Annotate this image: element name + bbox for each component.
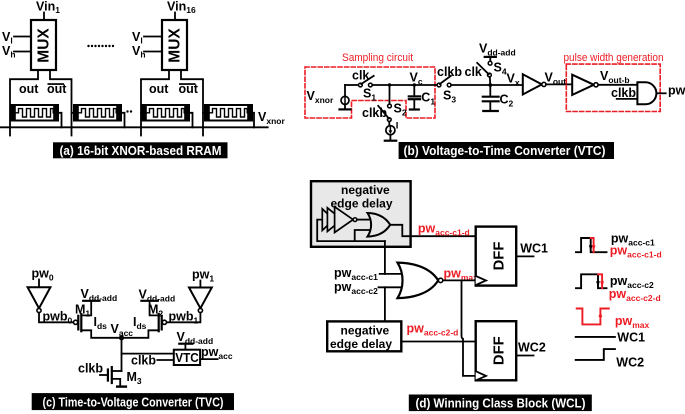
wire clkb (AND) [617,98,638,100]
wire Vh (U1) [14,51,31,53]
supply bar (VTC) [179,343,192,345]
node Vl (U16) [132,30,143,46]
svg-text:WC2: WC2 [616,356,644,370]
label pwacc-c1-d [418,222,470,238]
or gate delay1 [368,213,391,237]
svg-text:clkb: clkb [78,362,103,376]
svg-text:DFF: DFF [491,336,507,365]
svg-text:pw: pw [668,84,685,98]
svg-text:clk: clk [465,65,482,79]
label M2 [148,303,163,319]
svg-text:out: out [149,82,169,96]
transistor M2 (PMOS) [122,301,167,338]
sampling circuit dashed box [305,67,435,118]
wire Vin16 [174,13,176,21]
supply Vdd-add (S4) [479,42,516,58]
node out (U1) [19,82,39,96]
legend line WC1 [576,336,615,338]
wire outbar (U16) [181,70,203,136]
label pwacc-c2 [334,280,378,296]
wire delay1 input loop [317,220,385,242]
svg-text:WC1: WC1 [617,331,645,345]
node Vin16 [167,0,196,15]
label clkb (S3) [437,65,462,79]
legend label pwmax [615,314,650,330]
label clkb (S2) [362,106,387,120]
transistor M1 (PMOS) [74,301,122,338]
wire Vout [546,83,572,85]
svg-text:MUX: MUX [167,28,184,63]
svg-text:clkb: clkb [362,106,387,120]
legend label pwacc-c2-d [609,287,661,303]
supply bar (M1) [83,300,99,302]
svg-text:negative: negative [341,183,390,197]
svg-text:(a) 16-bit XNOR-based RRAM: (a) 16-bit XNOR-based RRAM [60,143,222,158]
wire main b3 [451,84,523,86]
node junction C2 [488,83,492,87]
label negative edge delay 1 [331,183,393,211]
wire pw0 [38,280,40,288]
wire S4 top [489,57,491,61]
wire pwacc-c2 [379,286,404,288]
wire inv chain to or [357,219,369,221]
switch S2 [378,104,391,121]
node Vin1 [36,0,60,15]
label clkb (M3) [78,362,103,376]
resistor RRAM cell 1 [11,105,58,121]
nor gate pwmax [398,263,443,299]
wire pwacc-c1-d [390,225,476,236]
inverter pw0 [28,287,51,312]
label clk (S4) [465,65,482,79]
wire Vl (U16) [144,36,162,38]
wire Vacc to VTC [122,353,174,355]
svg-text:I: I [396,121,399,132]
pulse width generation dashed box [566,64,660,111]
node Vh (U1) [2,44,16,60]
source Vxnor [340,85,351,109]
label S3 [443,89,456,105]
label I [396,121,399,132]
inverter pw1 [189,288,212,313]
svg-text:clkb: clkb [131,354,156,368]
label M3 [127,370,142,386]
node Vxnor [258,110,285,126]
block VTC [174,350,200,365]
capacitor C1 [409,85,420,110]
label C2 [500,93,514,109]
negative edge delay box 1 (grey) [311,181,411,247]
dff WC2 [476,321,517,380]
wire pw1 [199,281,201,288]
node pwb0 [43,310,73,326]
wire Vxnor bus [0,126,268,128]
wire Voutb [598,84,637,86]
legend label pwacc-c2 [610,274,654,290]
wire Vdd to VTC [184,344,186,350]
wire out (U1) [10,70,38,136]
svg-text:clkb: clkb [437,65,462,79]
resistor RRAM cell 2 [74,105,121,121]
node Vc [410,71,423,87]
resistor RRAM cell 3 [142,105,189,121]
legend label pwacc-c1-d [610,244,662,260]
node Vacc label [111,322,134,338]
caption a [53,142,228,158]
svg-text:clkb: clkb [611,86,636,100]
label pwacc-c2-d [407,322,459,338]
svg-text:edge delay: edge delay [330,337,392,351]
mux U1 [31,20,56,70]
node out (U16) [149,82,169,96]
wire delay1 or lower input [355,230,370,241]
wire main b2 [372,84,437,86]
wire WC1 [516,255,533,257]
wire cell4 right stub [252,113,254,128]
legend label WC1 [617,331,645,345]
supply bar (M2) [141,300,157,302]
wire pwacc-c2-d [401,341,474,343]
label S4 [494,61,507,77]
wire Vin1 [43,13,45,21]
label S1 [363,87,376,103]
legend label WC2 [616,356,644,370]
label C1 [421,91,435,107]
inverter U3 [572,75,598,95]
legend label pwacc-c1 [611,232,655,248]
svg-text:Sampling circuit: Sampling circuit [342,52,413,64]
node Voutb [600,69,630,85]
wire pw [657,92,666,94]
legend waveform WC2 [576,349,615,360]
label pwacc-c1 [334,266,378,282]
wire WC2 [516,355,533,357]
inverter chain d1 [322,207,357,233]
legend waveform pwacc-c1 [576,238,607,252]
node outbar (U1) [47,82,67,96]
label clk (S1) [352,69,369,83]
wire outbar (U1) [50,70,72,136]
transistor M3 (NMOS) [100,367,126,387]
wire delay1 input from c1 [384,241,386,274]
svg-text:DFF: DFF [491,242,507,271]
wire pwmax down to dff2 clock [462,280,476,376]
svg-text:pulse width generation: pulse width generation [564,52,664,64]
switch S4 [477,61,492,77]
caption d [409,395,592,412]
wire cell2 left lead [72,112,75,114]
svg-text:out: out [19,82,39,96]
wire pwacc [200,358,218,360]
wire Vl (U1) [14,36,31,38]
node Vx [507,72,520,88]
svg-text:(b) Voltage-to-Time Converter: (b) Voltage-to-Time Converter (VTC) [404,143,606,158]
label pulse width generation [564,52,664,64]
legend waveform pwmax [577,309,609,325]
svg-text:VTC: VTC [175,351,199,365]
node Vl (U1) [2,30,13,46]
node pwacc [201,345,233,361]
caption c [32,393,234,410]
node pw0 [32,267,54,283]
node pw [668,84,685,98]
wire pwb1 [167,313,201,323]
label clkb (VTC) [131,354,156,368]
label S2 [394,102,407,118]
label pwmax [444,267,479,283]
node Vh (U16) [132,44,146,60]
label Ids (M2) [133,315,147,331]
wire S2 branch [389,85,391,104]
inverter U2 [523,74,546,94]
mux U16 [162,20,187,70]
wire out (U16) [141,70,169,136]
dots between cells [87,45,114,47]
node junction C1 [413,83,416,86]
wire main b1 [345,84,359,86]
supply Vdd-add (M1) [81,287,118,303]
current source I [385,122,396,141]
caption b [399,142,614,159]
wire pwb0 [39,313,74,323]
wire c2 to delay2 [384,287,386,321]
resistor RRAM cell 4 [205,105,252,121]
node WC1 [520,242,548,256]
svg-text:WC2: WC2 [518,341,546,355]
svg-text:(d) Winning Class Block (WCL): (d) Winning Class Block (WCL) [416,396,586,411]
wire pwacc-c1 [380,273,403,275]
svg-text:negative: negative [341,324,390,338]
svg-text:edge delay: edge delay [331,197,393,211]
wire S4 bottom [489,77,492,85]
wire Vh (U16) [144,51,162,53]
node outbar (U16) [179,82,199,96]
svg-text:WC1: WC1 [520,242,548,256]
wire pwmax to dff1 clock [444,279,476,281]
label Sampling circuit [342,52,413,64]
wire cell1 right stub [58,113,62,128]
label Ids (M1) [94,315,108,331]
supply bar (S4) [485,56,496,58]
label M1 [75,303,90,319]
svg-text:MUX: MUX [36,28,53,63]
node Vout [545,71,567,87]
dots between cell2 and cell3 [126,110,132,112]
wire cell2 right stub [121,113,125,128]
legend waveform pwacc-c2 [576,274,607,288]
node junction S2 [388,83,391,86]
negative edge delay box 2 [327,321,401,351]
wire Vacc down [121,338,123,371]
supply Vdd-add (VTC) [177,330,214,346]
and gate U4 [637,82,656,104]
svg-text:(c) Time-to-Voltage Converter: (c) Time-to-Voltage Converter (TVC) [43,394,224,409]
wire cell3 right stub [189,113,193,128]
switch S1 [359,76,374,87]
dff WC1 [476,227,517,286]
supply Vdd-add (M2) [139,288,176,304]
label clkb (AND) [611,86,636,100]
capacitor C2 [483,85,499,111]
node Vxnor label [307,89,334,105]
node Vacc junction [119,335,124,340]
wire cell4 left lead [203,112,205,114]
wire clkb to VTC [157,359,173,361]
switch S3 [437,76,451,87]
node pw1 [192,268,214,284]
node pwb1 [169,310,199,326]
node WC2 [518,341,546,355]
wire cell3 left lead [141,112,142,114]
svg-text:clk: clk [352,69,369,83]
